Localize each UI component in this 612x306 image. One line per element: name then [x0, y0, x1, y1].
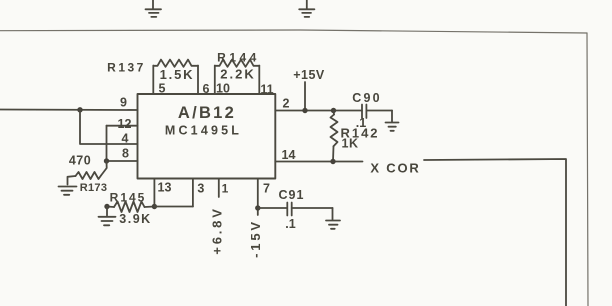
IC U1 A/B12 MC1495L	[138, 94, 276, 179]
node: junction R145 / ground	[104, 204, 109, 209]
wire: right border vertical	[587, 33, 588, 306]
node: junction +15V / pin2	[302, 108, 307, 113]
svg-text:A/B12: A/B12	[178, 104, 236, 122]
svg-text:3.9K: 3.9K	[119, 212, 151, 226]
svg-text:X COR: X COR	[370, 161, 420, 176]
svg-text:R173: R173	[80, 182, 108, 194]
svg-text:6: 6	[203, 82, 210, 96]
svg-text:.1: .1	[285, 217, 295, 231]
svg-text:470: 470	[69, 154, 91, 168]
wire: top border line	[0, 30, 587, 33]
ground (R173)	[59, 187, 77, 195]
svg-text:10: 10	[216, 82, 230, 96]
wire: R145 to ground	[106, 207, 108, 216]
svg-text:1: 1	[222, 182, 229, 196]
svg-text:13: 13	[158, 181, 172, 195]
ground (C91)	[326, 221, 340, 229]
svg-text:C90: C90	[352, 91, 382, 105]
wire: X COR to right and down	[424, 159, 566, 306]
svg-text:C91: C91	[279, 188, 305, 202]
svg-text:+15V: +15V	[293, 68, 325, 82]
resistor R142 1K	[331, 111, 338, 162]
wire: C90 to ground	[391, 111, 393, 122]
svg-text:3: 3	[197, 182, 204, 196]
node: junction on pin 9 wire	[77, 107, 82, 112]
wire: pin 7 stub down	[257, 179, 259, 216]
wire: pin 12 stub	[107, 125, 138, 127]
node: junction pin 8 / R173	[104, 158, 109, 163]
wire: vertical tie pins 12-4-8	[106, 126, 108, 161]
ground (top left)	[146, 0, 162, 17]
wire: pin 1 stub down	[218, 179, 220, 198]
node: junction R142 / pin2	[331, 108, 336, 113]
resistor R144 2.2K (pins 10-11)	[215, 60, 259, 94]
wire: pin 3 stub down	[192, 179, 194, 207]
svg-text:5: 5	[159, 82, 166, 96]
wire: branch down from pin 9 junction	[80, 110, 138, 144]
wire: pin 8 stub	[107, 160, 138, 162]
svg-text:MC1495L: MC1495L	[165, 124, 242, 138]
svg-text:+6.8V: +6.8V	[210, 206, 225, 254]
svg-text:12: 12	[118, 117, 132, 131]
svg-text:8: 8	[122, 147, 129, 161]
svg-text:14: 14	[282, 148, 296, 162]
svg-text:1.5K: 1.5K	[160, 67, 195, 82]
ground (C90)	[386, 123, 399, 131]
svg-text:4: 4	[122, 132, 129, 146]
resistor R173 470	[68, 161, 107, 185]
svg-text:2: 2	[283, 97, 290, 111]
svg-text:7: 7	[263, 182, 270, 196]
resistor R145 3.9K	[107, 202, 154, 213]
wire: C91 to ground	[332, 208, 334, 220]
svg-text:1K: 1K	[342, 137, 359, 151]
svg-text:-15V: -15V	[248, 219, 263, 258]
capacitor C90 .1	[362, 105, 392, 119]
svg-text:R144: R144	[217, 51, 260, 65]
ground (R145)	[99, 217, 116, 226]
svg-text:11: 11	[260, 83, 273, 97]
resistor R137 1.5K (pins 5-6)	[153, 60, 198, 94]
svg-text:2.2K: 2.2K	[220, 67, 255, 82]
node: junction pin13 / R145 / pin3	[152, 204, 157, 209]
svg-text:9: 9	[120, 96, 127, 110]
wire: input to pin 9	[0, 109, 138, 112]
svg-text:R137: R137	[107, 61, 146, 75]
wire: pin 14 out	[275, 161, 362, 163]
wire: pin 13 stub down	[153, 179, 155, 207]
svg-text:R145: R145	[110, 191, 147, 205]
wire: pin 13 to pin 3	[154, 206, 193, 208]
wire: +15V down to pin 2 net	[304, 82, 306, 111]
node: junction pin 14 / R142	[330, 159, 335, 164]
capacitor C91 .1	[258, 203, 333, 216]
wire: pin 2 to C90	[275, 110, 362, 112]
node: junction pin 7 / C91	[255, 205, 260, 210]
ground (top right)	[299, 0, 314, 17]
